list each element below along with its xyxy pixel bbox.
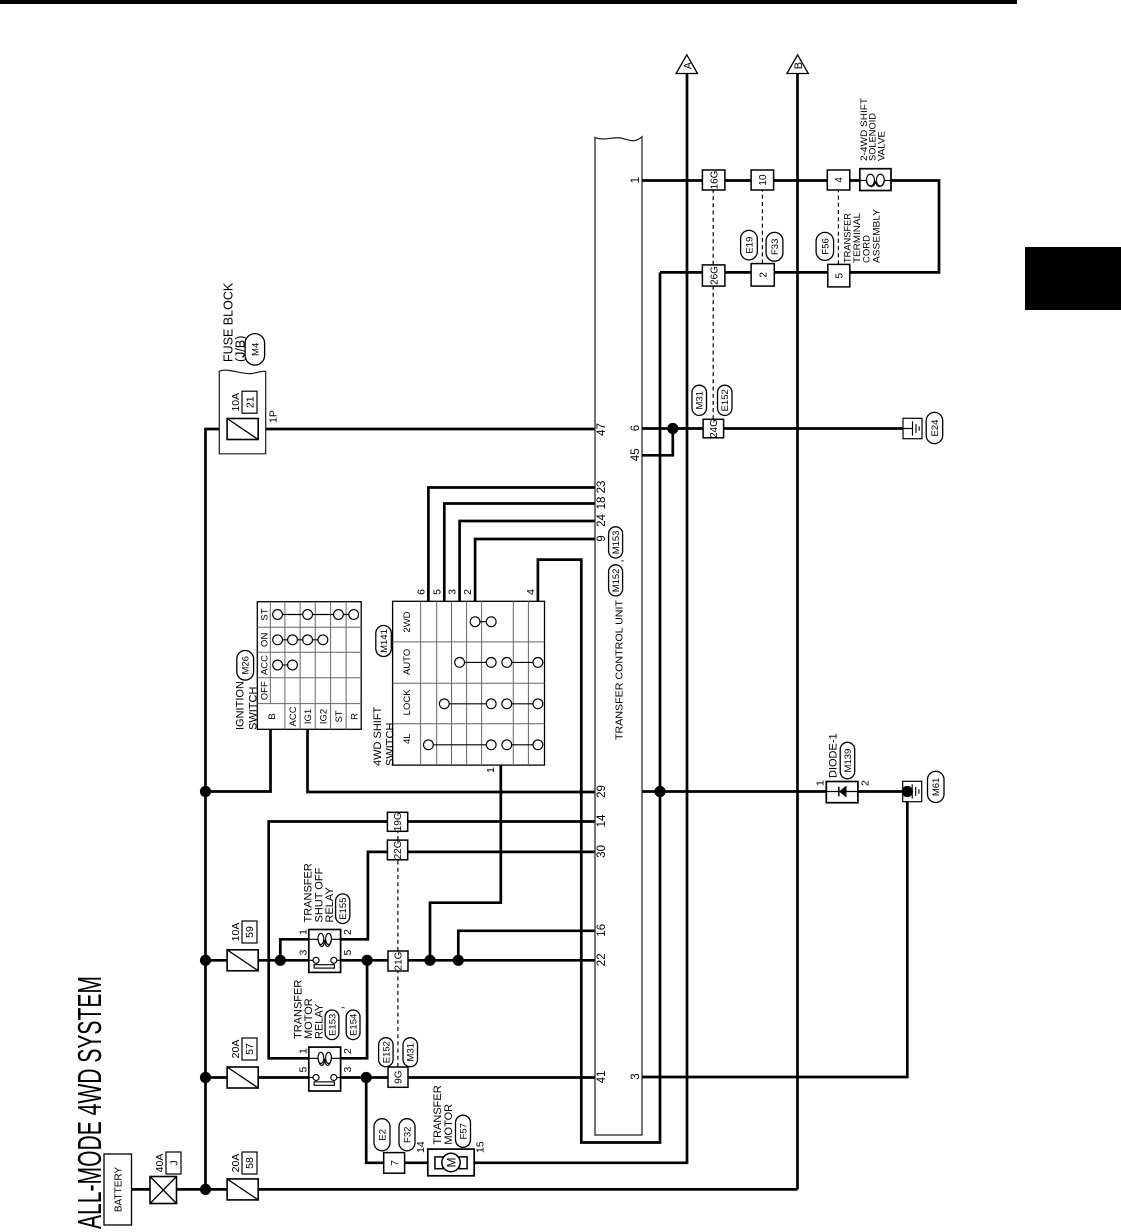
- wire motor relay contact to 9G to TCU pin 41: [341, 1076, 595, 1079]
- svg-text:5: 5: [834, 272, 845, 278]
- svg-text:3: 3: [342, 1067, 354, 1073]
- svg-text:20A: 20A: [230, 1040, 242, 1059]
- svg-text:IG2: IG2: [319, 709, 330, 724]
- connector ovals M31 E152 at 24G: [692, 385, 707, 415]
- svg-text:LOCK: LOCK: [402, 689, 413, 716]
- svg-text:1: 1: [298, 929, 310, 935]
- wire 20A-57 branch to transfer motor relay contact: [206, 1076, 309, 1079]
- junction bus to fuse 59: [200, 955, 211, 966]
- svg-text:22G: 22G: [393, 840, 404, 859]
- svg-text:5: 5: [431, 589, 443, 595]
- wire TCU pin 3 to ground M61: [642, 792, 907, 1078]
- svg-text:3: 3: [298, 950, 310, 956]
- svg-text:19G: 19G: [393, 812, 404, 831]
- wire ignition switch IG1 to TCU pin 29: [308, 729, 596, 792]
- svg-text:4: 4: [834, 177, 845, 183]
- svg-text:1: 1: [485, 767, 497, 773]
- wire transfer motor pin 15 to A-row and triangle A: [474, 74, 687, 1163]
- wire battery feed to ignition switch terminal B: [206, 729, 271, 791]
- svg-text:F56: F56: [820, 238, 831, 254]
- svg-text:9: 9: [596, 535, 608, 541]
- svg-text:M139: M139: [843, 749, 854, 773]
- svg-text:CORD: CORD: [862, 235, 872, 263]
- svg-text:40A: 40A: [154, 1154, 166, 1173]
- svg-text:ACC: ACC: [288, 706, 299, 726]
- junction battery bus tap: [200, 1184, 211, 1195]
- svg-text:24: 24: [596, 514, 608, 527]
- section tab mark: [1025, 247, 1121, 310]
- svg-text:5: 5: [298, 1067, 310, 1073]
- svg-text:E2: E2: [377, 1129, 388, 1141]
- wire motor feed branch to connector 7 and transfer motor pin 14: [366, 1078, 428, 1163]
- svg-text:AUTO: AUTO: [402, 649, 413, 675]
- svg-text:3: 3: [630, 1073, 642, 1079]
- 4WD shift switch M141: [393, 601, 545, 765]
- svg-text:E152: E152: [720, 389, 731, 411]
- dashed link 26G to 16G: [712, 190, 714, 265]
- connector 5: [828, 264, 850, 287]
- page top edge bar: [0, 0, 1017, 4]
- svg-text:6: 6: [416, 589, 428, 595]
- svg-text:E155: E155: [338, 898, 349, 920]
- connector 24G: [703, 419, 724, 438]
- svg-text:IG1: IG1: [303, 709, 314, 724]
- svg-text:DIODE-1: DIODE-1: [828, 733, 840, 778]
- junction motor relay output to transfer motor feed: [361, 1072, 372, 1083]
- svg-text:OFF: OFF: [260, 681, 271, 700]
- svg-text:ON: ON: [260, 633, 271, 647]
- svg-text:BATTERY: BATTERY: [114, 1167, 125, 1213]
- svg-text:21: 21: [244, 396, 256, 408]
- svg-text:E24: E24: [930, 420, 941, 437]
- connector oval F56: [816, 232, 834, 260]
- dashed link 22G to 19G: [397, 831, 399, 840]
- svg-text:M141: M141: [379, 629, 390, 653]
- svg-text:22: 22: [596, 953, 608, 966]
- svg-text:,: ,: [614, 559, 626, 562]
- svg-text:14: 14: [415, 1141, 427, 1153]
- diode-1 M139: [826, 782, 858, 803]
- svg-text:2: 2: [342, 929, 354, 935]
- connector 10: [751, 170, 774, 190]
- svg-text:,: ,: [334, 1006, 346, 1009]
- fuse 20A 58: [227, 1179, 258, 1200]
- transfer shut off relay E155: [309, 930, 341, 973]
- svg-text:4L: 4L: [402, 733, 413, 744]
- svg-text:1: 1: [630, 177, 642, 183]
- svg-text:B: B: [267, 713, 278, 719]
- junction shut off relay output to motor relay coil: [362, 955, 373, 966]
- wire shift switch terminal 4 around TCU to 26G chain: [538, 272, 660, 1142]
- svg-text:M: M: [444, 1158, 458, 1168]
- svg-text:F33: F33: [770, 239, 781, 255]
- transfer control unit M152 M153: [595, 137, 642, 1135]
- svg-text:M31: M31: [695, 391, 706, 409]
- wire shift switch terminal 5 to TCU pin 18: [444, 504, 595, 602]
- triangle A: [676, 55, 697, 74]
- svg-text:F32: F32: [402, 1127, 413, 1143]
- wire TCU pin 30 via 22G to shut off relay coil pin 2: [341, 852, 595, 939]
- svg-text:57: 57: [244, 1043, 256, 1055]
- svg-text:41: 41: [596, 1071, 608, 1084]
- svg-text:4WD SHIFT: 4WD SHIFT: [372, 706, 384, 766]
- svg-text:M31: M31: [406, 1043, 417, 1061]
- wire B-row to triangle B: [796, 74, 799, 1190]
- svg-text:18: 18: [596, 497, 608, 510]
- svg-text:TERMINAL: TERMINAL: [852, 213, 862, 263]
- svg-text:ASSEMBLY: ASSEMBLY: [872, 209, 882, 263]
- wire shift switch terminal 2 to TCU pin 9: [475, 539, 595, 601]
- ignition switch contact circles: [278, 664, 293, 666]
- junction at ground M61: [902, 786, 913, 797]
- svg-text:M153: M153: [611, 531, 622, 555]
- junction solenoid return to diode branch: [654, 786, 665, 797]
- connector 9G: [388, 1067, 408, 1087]
- connector 4: [827, 170, 850, 190]
- svg-text:A: A: [682, 61, 694, 69]
- svg-text:E19: E19: [744, 237, 755, 254]
- svg-text:6: 6: [630, 425, 642, 431]
- ignition switch M26: [257, 602, 361, 730]
- wire shut off relay contact output to 21G to TCU pin 22: [341, 959, 595, 962]
- svg-text:59: 59: [244, 926, 256, 938]
- svg-text:10: 10: [758, 174, 769, 186]
- triangle B: [787, 55, 808, 74]
- svg-text:J: J: [168, 1160, 180, 1165]
- connector ovals E152 M31 at 9G: [379, 1038, 394, 1067]
- svg-text:2: 2: [462, 589, 474, 595]
- svg-text:20A: 20A: [230, 1154, 242, 1173]
- svg-text:F57: F57: [458, 1123, 469, 1139]
- fuse block J/B with fuse 10A 21: [219, 370, 265, 454]
- svg-text:ACC: ACC: [260, 655, 271, 675]
- svg-text:RELAY: RELAY: [314, 1003, 326, 1039]
- svg-text:1: 1: [298, 1048, 310, 1054]
- dashed link 24G to 26G: [712, 286, 714, 419]
- svg-text:B: B: [793, 62, 805, 69]
- svg-text:SWITCH: SWITCH: [384, 723, 396, 766]
- svg-text:SWITCH: SWITCH: [247, 687, 259, 730]
- svg-text:M152: M152: [611, 569, 622, 593]
- svg-text:IGNITION: IGNITION: [235, 681, 247, 730]
- svg-text:26G: 26G: [709, 266, 720, 285]
- svg-text:30: 30: [596, 845, 608, 858]
- wire TCU pin 6 through 24G to ground E24: [642, 427, 903, 430]
- connector 21G: [388, 951, 408, 971]
- wire TCU pin 29 branch through diode-1 to ground M61: [642, 790, 907, 793]
- wire 26G-2-5 chain to solenoid return: [660, 181, 939, 273]
- wire main bus from battery junction to fuse block: [206, 429, 596, 1189]
- junction node to shift switch terminal 1: [424, 955, 435, 966]
- svg-text:16: 16: [596, 924, 608, 937]
- ground M61: [903, 781, 922, 801]
- 2-4WD shift solenoid valve: [860, 169, 891, 191]
- wire branch to TCU pin 16: [458, 931, 595, 961]
- svg-text:M4: M4: [250, 343, 261, 356]
- svg-text:7: 7: [390, 1160, 401, 1166]
- svg-text:14: 14: [596, 814, 608, 827]
- dashed link 9G to 21G: [397, 971, 399, 1067]
- svg-text:24G: 24G: [709, 419, 720, 438]
- svg-text:3: 3: [447, 589, 459, 595]
- svg-text:RELAY: RELAY: [324, 887, 336, 923]
- svg-text:2WD: 2WD: [402, 611, 413, 632]
- battery: [104, 1154, 132, 1225]
- connector 7 E2 F32: [384, 1153, 405, 1174]
- svg-text:TRANSFER: TRANSFER: [843, 213, 853, 263]
- fuse 10A 59: [227, 950, 258, 971]
- svg-text:ST: ST: [334, 710, 345, 722]
- svg-text:E152: E152: [381, 1041, 392, 1063]
- svg-text:47: 47: [596, 423, 608, 436]
- svg-text:1P: 1P: [268, 410, 280, 423]
- junction bus to fuse 57: [200, 1072, 211, 1083]
- wire 10A-59 branch to transfer shut off relay contact: [206, 959, 309, 962]
- wire shut off relay coil pin 1 feed: [280, 939, 309, 960]
- 4WD shift switch contact circles: [428, 744, 491, 746]
- ground E24: [903, 418, 922, 438]
- svg-text:R: R: [349, 713, 360, 720]
- svg-text:9G: 9G: [394, 1070, 405, 1084]
- svg-text:10A: 10A: [230, 393, 242, 412]
- dashed link 21G to 22G: [397, 860, 399, 951]
- svg-text:16G: 16G: [709, 170, 720, 189]
- svg-text:58: 58: [244, 1157, 256, 1169]
- junction node to TCU pin 16: [453, 955, 464, 966]
- svg-text:ALL-MODE 4WD SYSTEM: ALL-MODE 4WD SYSTEM: [71, 976, 108, 1229]
- svg-text:5: 5: [342, 950, 354, 956]
- svg-text:1: 1: [815, 780, 827, 786]
- svg-text:45: 45: [630, 448, 642, 461]
- transfer motor F57: [428, 1149, 474, 1176]
- wire TCU pin 1 through 16G 10 4 to solenoid: [642, 179, 860, 182]
- connector 16G: [702, 170, 725, 190]
- svg-text:E153: E153: [327, 1014, 338, 1036]
- wire shift switch terminal 3 to TCU pin 24: [460, 521, 595, 601]
- wire battery feed: battery down through 40A J and 20A 58 to B-row: [132, 1188, 798, 1191]
- svg-text:10A: 10A: [230, 923, 242, 942]
- svg-text:4: 4: [525, 589, 537, 595]
- wire shut off relay output to motor relay coil pin 2: [341, 960, 368, 1058]
- fusible link J 40A: [150, 1177, 177, 1204]
- svg-text:21G: 21G: [394, 951, 405, 970]
- svg-text:29: 29: [596, 785, 608, 798]
- junction fuse 59 to relay coil and contact: [275, 955, 286, 966]
- svg-text:E154: E154: [349, 1014, 360, 1036]
- svg-text:23: 23: [596, 481, 608, 494]
- connector 26G: [702, 265, 725, 286]
- dashed link 5 to 4: [837, 190, 839, 264]
- connector 22G: [387, 840, 407, 860]
- junction bus to ignition switch B: [200, 786, 211, 797]
- connector 19G: [387, 812, 407, 831]
- svg-text:TRANSFER CONTROL UNIT: TRANSFER CONTROL UNIT: [615, 600, 626, 740]
- svg-text:VALVE: VALVE: [876, 131, 886, 161]
- svg-text:MOTOR: MOTOR: [443, 1104, 455, 1145]
- wire 4WD shift switch terminal 1 to relay output node: [430, 765, 501, 960]
- svg-text:15: 15: [474, 1141, 486, 1153]
- svg-text:M26: M26: [241, 656, 252, 674]
- svg-text:2: 2: [342, 1048, 354, 1054]
- dashed link 2 to 10: [761, 190, 763, 264]
- svg-text:2: 2: [758, 272, 769, 278]
- svg-text:M61: M61: [931, 778, 942, 796]
- svg-text:ST: ST: [260, 608, 271, 620]
- connector ovals E19 F33: [741, 230, 758, 260]
- svg-text:2: 2: [860, 780, 872, 786]
- fuse 20A 57: [227, 1067, 258, 1088]
- transfer motor relay E153 E154: [309, 1047, 341, 1091]
- junction TCU pin 45 to pin 6 wire: [667, 423, 678, 434]
- wire shift switch terminal 6 to TCU pin 23: [428, 488, 595, 602]
- wire TCU pin 14 via 19G to motor relay coil pin 1: [269, 822, 595, 1059]
- wire TCU pin 45 join pin 6 node: [642, 429, 673, 456]
- connector 2: [751, 264, 774, 287]
